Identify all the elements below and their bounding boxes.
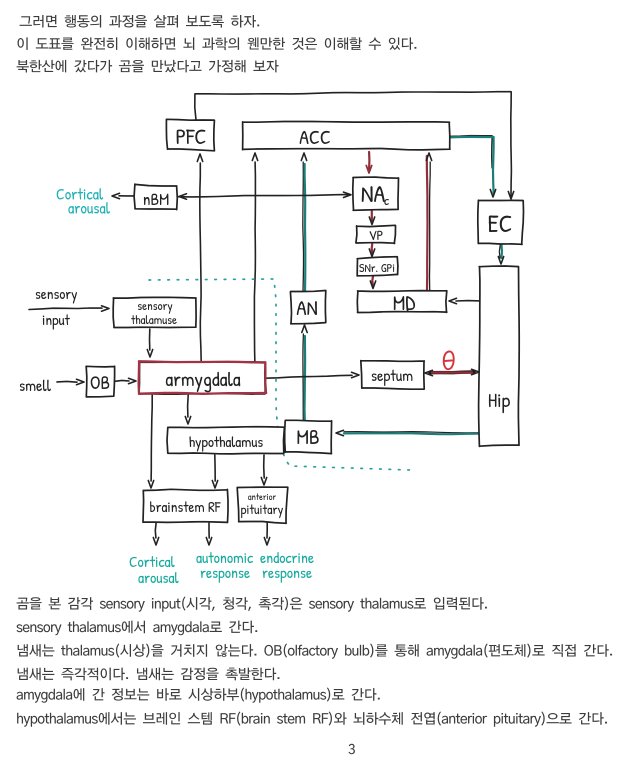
wire hypothalamus to brainstem RF (down): [212, 455, 217, 488]
box EC: [478, 200, 524, 244]
wire VP to SNr.GPi (red down arrow): [369, 244, 374, 257]
wire brainstem RF to autonomic response (down): [206, 523, 211, 545]
wire EC to Hip (teal down arrow): [498, 245, 503, 264]
box SNr.GPi: [357, 257, 398, 276]
wire hypothalamus to anterior pituitary (down): [261, 455, 266, 485]
label autonomic response (teal): [196, 552, 253, 583]
wire smell to OB: [57, 379, 84, 384]
box NAc: [353, 177, 399, 210]
box nBM: [134, 184, 177, 210]
wire ACC to NAc (red down arrow): [366, 152, 371, 173]
label cortical arousal (teal, top left): [57, 188, 110, 214]
wire nBM to cortical arousal (arrow left): [112, 193, 134, 198]
korean paragraph top: [17, 15, 417, 73]
label theta (red): [444, 351, 454, 369]
box MB: [285, 420, 332, 453]
box hypothalamus: [167, 427, 284, 454]
wire nBM-NAc bidirectional: [178, 192, 351, 199]
wire septum to Hip (red theta bidirectional): [425, 369, 479, 375]
wire amygdala to brainstem RF (down): [148, 395, 153, 488]
wire PFC top to EC (outer top line): [195, 92, 514, 199]
box brainstem RF: [143, 489, 228, 522]
page number 3: [348, 744, 355, 754]
box septum: [361, 361, 425, 390]
wire Hip to MB (teal arrow left): [336, 430, 480, 435]
box Hip: [479, 266, 520, 446]
dotted teal path (theta loop): [149, 279, 410, 470]
label endocrine response (teal): [260, 552, 313, 583]
korean paragraph bottom: [16, 597, 612, 727]
label smell: [20, 380, 51, 391]
wire amygdala to septum (arrow right): [266, 372, 359, 378]
label sensory input: [36, 292, 77, 330]
wire anterior pituitary to endocrine response (down): [264, 523, 269, 545]
wire amygdala to ACC (up arrow): [252, 153, 257, 364]
wire NAc to VP (red down arrow): [369, 211, 374, 225]
box ACC: [243, 122, 450, 150]
wire sensory input to sensory thalamus: [29, 306, 109, 311]
box sensory thalamus: [113, 297, 196, 327]
box OB: [86, 366, 115, 397]
wire MB to AN (teal ascending): [302, 325, 307, 421]
box PFC: [166, 119, 214, 151]
wire Hip to MD (arrow left): [449, 298, 480, 303]
wire brainstem RF to cortical arousal (down): [153, 523, 158, 545]
wire SNr.GPi to MD (red down arrow): [370, 276, 375, 289]
label cortical arousal (teal, bottom): [130, 556, 179, 583]
box AN: [290, 291, 325, 324]
wire amygdala to PFC (up arrow): [197, 154, 202, 362]
wire MD to ACC (red and black ascending): [426, 153, 431, 290]
wire sensory thalamus to amygdala (down): [147, 329, 152, 357]
wire ACC to EC (teal): [449, 136, 496, 198]
wire AN to ACC (teal ascending): [301, 153, 306, 291]
box VP: [356, 225, 396, 243]
box MD: [357, 291, 447, 313]
wire amygdala to hypothalamus (down): [185, 395, 190, 424]
box anterior pituitary: [237, 487, 288, 523]
box amygdala (red): [139, 361, 267, 394]
wire OB to amygdala: [115, 378, 136, 383]
